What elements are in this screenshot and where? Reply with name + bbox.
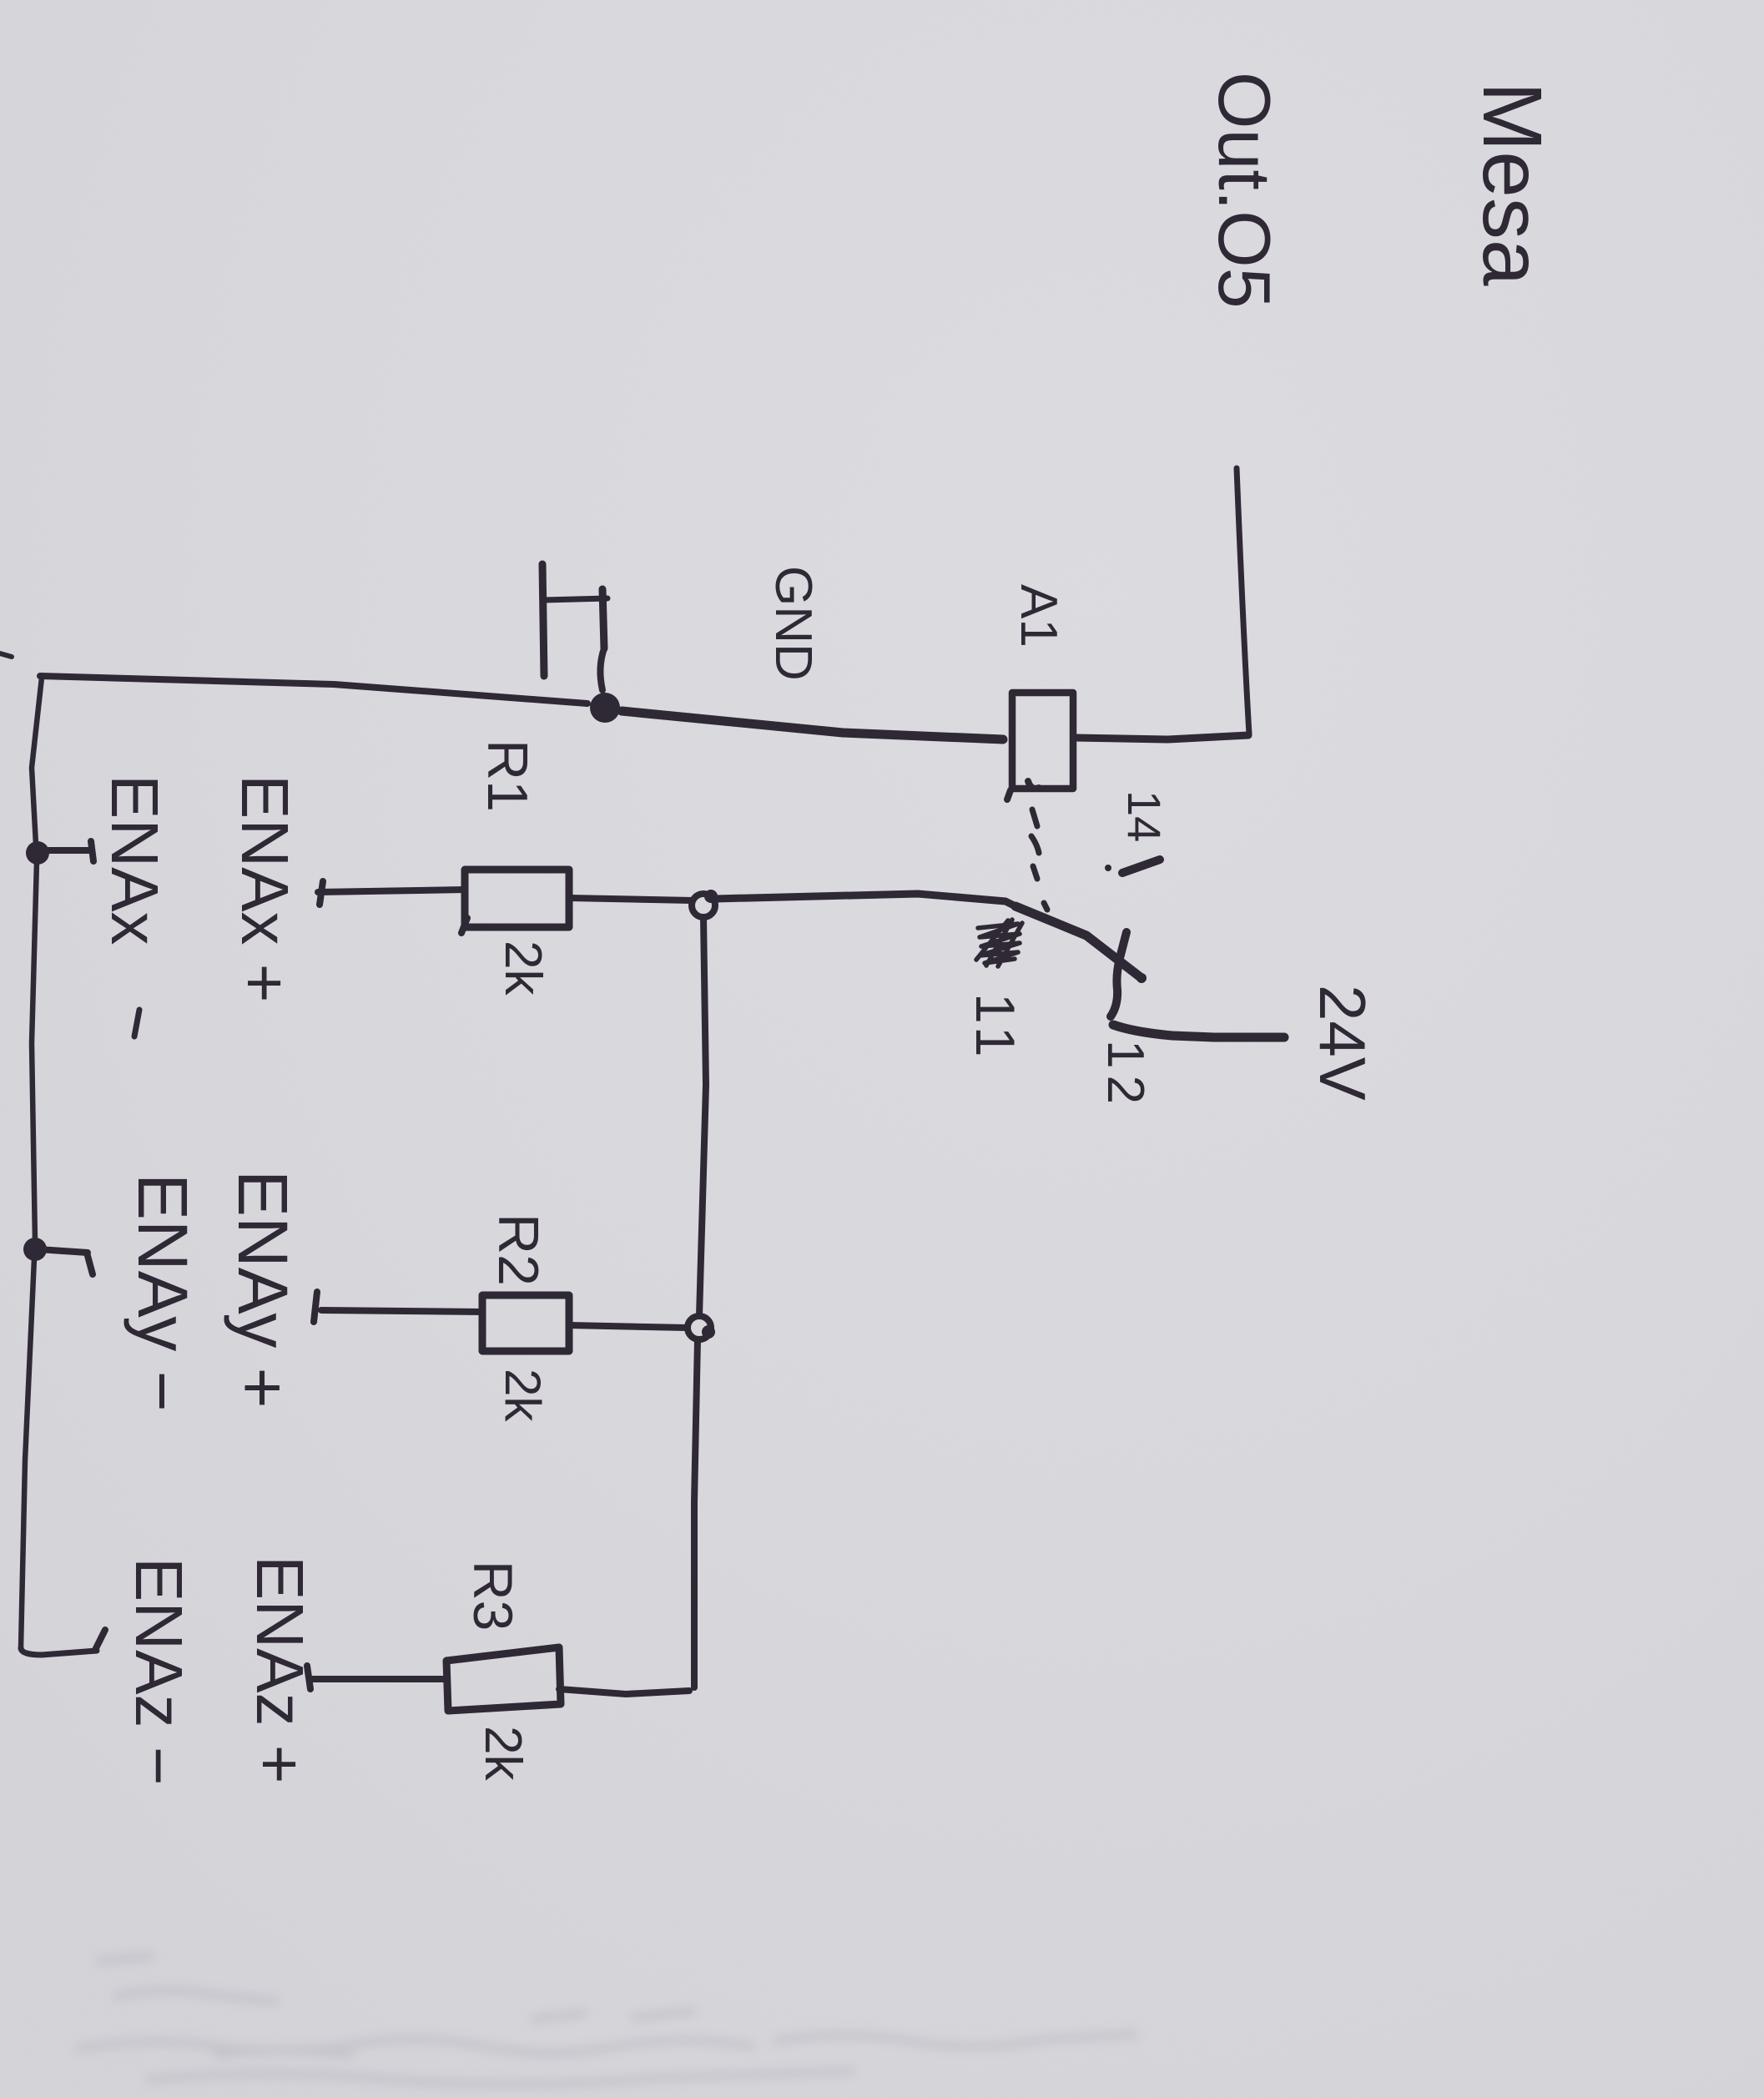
resistor R1 wire right — [569, 898, 693, 900]
svg-text:ENAx +: ENAx + — [228, 774, 302, 1002]
middle bus J2 to R3 corner — [694, 1339, 698, 1687]
svg-text:R3: R3 — [462, 1561, 524, 1631]
relay contact blade — [1016, 906, 1142, 978]
svg-text:R2: R2 — [486, 1213, 550, 1286]
terminal ENAx- stub — [40, 847, 92, 854]
resistor R2 wire left — [321, 1310, 482, 1312]
svg-text:14: 14 — [1118, 790, 1171, 842]
svg-text:Mesa: Mesa — [1465, 82, 1559, 286]
svg-text:GND: GND — [764, 566, 822, 681]
terminal tick R3 — [307, 1666, 310, 1689]
relay coil A1 — [1012, 693, 1073, 789]
svg-text:R1: R1 — [476, 739, 539, 812]
svg-text:12: 12 — [1096, 1040, 1154, 1111]
svg-text:2k: 2k — [474, 1726, 532, 1781]
wire from Out.O5 down to A1 corner — [1237, 468, 1249, 734]
terminal ENAy- junction dot — [23, 1238, 47, 1261]
contact fixed lead — [1111, 932, 1126, 1016]
ground symbol — [542, 564, 544, 676]
svg-text:Out.O5: Out.O5 — [1203, 72, 1286, 309]
resistor R3 wire left — [310, 1676, 446, 1682]
svg-text:A1: A1 — [1010, 584, 1067, 648]
resistor R3 — [446, 1647, 561, 1711]
junction blob on GND line — [590, 693, 620, 723]
GND wire (left of A1) — [40, 676, 587, 704]
left bus wire — [32, 678, 42, 845]
svg-text:ENAx: ENAx — [98, 774, 172, 946]
middle bus J1 to J2 — [699, 917, 706, 1316]
bottom left corner and ENAz- stub — [21, 1648, 97, 1655]
svg-text:2k: 2k — [494, 941, 552, 996]
terminal ENAy- stub — [38, 1249, 88, 1253]
dashed actuation link — [1032, 809, 1037, 826]
resistor R1 wire left — [318, 890, 465, 892]
resistor R2 — [482, 1295, 569, 1351]
terminal tick R2 — [314, 1292, 317, 1322]
svg-text:ENAz −: ENAz − — [122, 1557, 196, 1785]
svg-text:11: 11 — [965, 993, 1026, 1064]
svg-text:2k: 2k — [495, 1369, 551, 1422]
resistor R1 — [465, 870, 569, 927]
svg-text:ENAy +: ENAy + — [224, 1170, 302, 1409]
junction node J2 — [688, 1316, 711, 1339]
svg-text:24V: 24V — [1306, 985, 1379, 1101]
wire J1 to switch — [715, 894, 1016, 906]
resistor R2 wire right — [569, 1325, 688, 1328]
faint ink bleed-through from reverse side — [79, 1956, 1135, 2085]
small pen mark top left — [0, 653, 12, 657]
junction node J1 — [692, 894, 715, 917]
terminal tick R1 — [320, 881, 323, 905]
scribbled-out label — [976, 920, 1022, 966]
resistor R3 wire right — [559, 1689, 689, 1694]
svg-text:ENAy −: ENAy − — [123, 1173, 202, 1412]
24V wire — [1113, 1025, 1284, 1037]
terminal ENAx- junction dot — [26, 841, 49, 865]
wire corner to relay coil A1 — [1075, 735, 1248, 739]
